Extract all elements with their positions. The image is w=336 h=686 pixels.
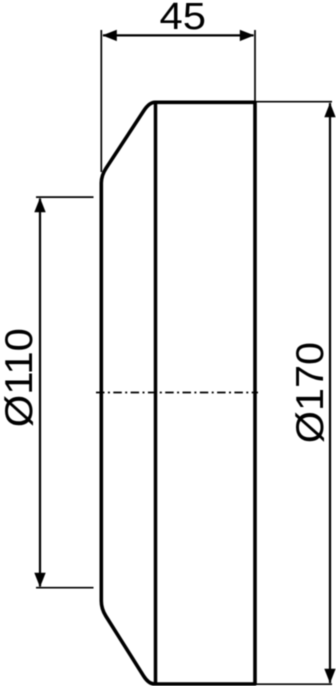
svg-text:Ø110: Ø110: [0, 328, 41, 427]
extension line top (D170 dim): [256, 101, 332, 103]
svg-text:45: 45: [160, 0, 207, 38]
dimension line 45: [103, 34, 254, 36]
gasket outline: [101, 102, 255, 684]
arrow D110 down: [34, 573, 45, 588]
dimension line D110: [39, 199, 41, 587]
centerline: [96, 392, 258, 394]
svg-text:Ø170: Ø170: [289, 342, 332, 443]
arrow 45 right: [240, 30, 255, 41]
arrow D110 up: [34, 198, 45, 213]
extension line left (45 dim): [100, 30, 102, 172]
inner edge line: [154, 103, 158, 683]
arrow D170 down: [324, 669, 335, 684]
extension line top (D110 dim): [36, 196, 94, 198]
extension line bottom (D170 dim): [256, 683, 332, 685]
extension line right (45 dim): [254, 30, 256, 101]
dimension line D170: [329, 103, 331, 683]
extension line bottom (D110 dim): [36, 587, 94, 589]
arrow 45 left: [102, 30, 117, 41]
arrow D170 up: [324, 103, 335, 118]
